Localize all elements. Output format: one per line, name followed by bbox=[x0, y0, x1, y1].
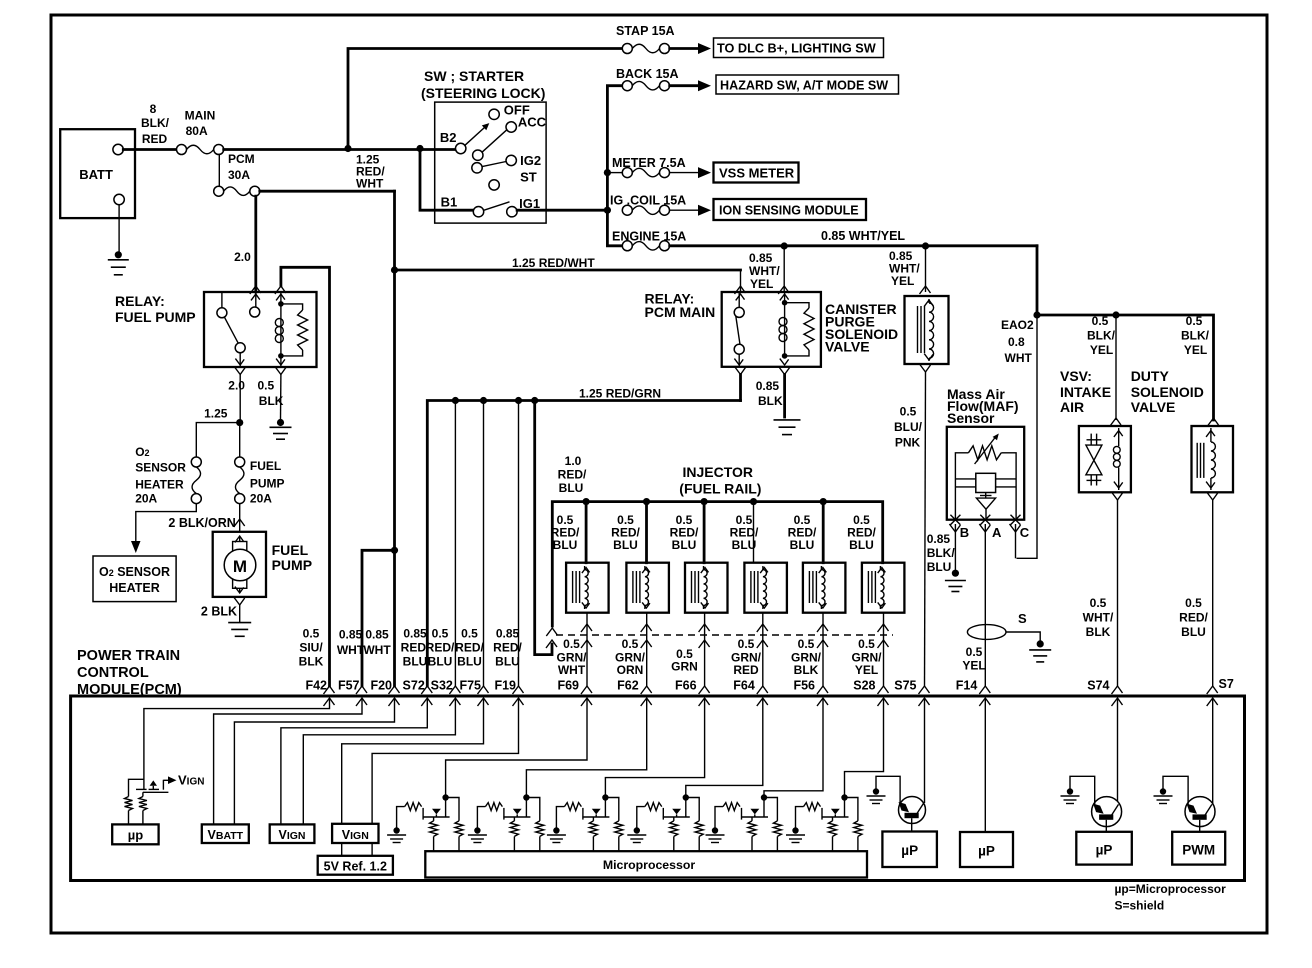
svg-text:YEL: YEL bbox=[891, 274, 914, 288]
svg-text:BLK/: BLK/ bbox=[1087, 329, 1116, 343]
label FUEL PUMP (motor) bbox=[272, 542, 312, 573]
svg-text:RED/: RED/ bbox=[1179, 611, 1208, 625]
svg-text:1.25 RED/WHT: 1.25 RED/WHT bbox=[512, 256, 595, 270]
svg-text:ENGINE 15A: ENGINE 15A bbox=[612, 230, 686, 244]
wire branch to F57 bbox=[362, 550, 395, 686]
svg-text:FUEL: FUEL bbox=[272, 542, 309, 558]
relay PCM MAIN switch bbox=[734, 292, 744, 367]
svg-text:HEATER: HEATER bbox=[135, 477, 184, 491]
ground shield ground bbox=[1029, 640, 1051, 662]
label MAIN 80A bbox=[185, 109, 216, 139]
relay PCM MAIN connector chevrons bbox=[734, 294, 788, 365]
ground battery ground bbox=[108, 251, 129, 275]
svg-text:30A: 30A bbox=[228, 168, 250, 182]
wire F42 to FET bbox=[144, 698, 330, 789]
injector 4 box bbox=[744, 563, 787, 613]
svg-text:BLU: BLU bbox=[553, 538, 578, 552]
base wire transistor Q3 (S7 driver) bbox=[1163, 776, 1188, 805]
svg-text:YEL: YEL bbox=[1184, 343, 1207, 357]
svg-text:8: 8 bbox=[150, 102, 157, 116]
ground driver 3 gate ground bbox=[547, 827, 566, 842]
svg-text:0.5: 0.5 bbox=[858, 637, 875, 651]
base wire transistor Q1 (S75 driver) bbox=[876, 776, 900, 803]
svg-text:VALVE: VALVE bbox=[1131, 399, 1176, 415]
svg-text:µP: µP bbox=[1096, 843, 1113, 858]
svg-text:0.5: 0.5 bbox=[966, 645, 983, 659]
svg-text:1.0: 1.0 bbox=[565, 454, 582, 468]
svg-text:B: B bbox=[960, 525, 969, 540]
svg-text:0.85 WHT/YEL: 0.85 WHT/YEL bbox=[821, 229, 905, 243]
label 0.85 BLK/BLU bbox=[927, 532, 956, 574]
wire fuse to fuel pump motor bbox=[234, 504, 245, 532]
svg-text:S32: S32 bbox=[431, 679, 453, 693]
svg-text:POWER TRAIN: POWER TRAIN bbox=[77, 648, 180, 664]
svg-text:20A: 20A bbox=[250, 491, 272, 505]
injector 3 box bbox=[685, 563, 728, 613]
source resistor driver 5 bbox=[748, 817, 756, 851]
wire 1.25 RED/GRN bbox=[427, 397, 740, 686]
svg-text:IG .COIL 15A: IG .COIL 15A bbox=[610, 194, 686, 208]
svg-text:O2 SENSOR: O2 SENSOR bbox=[99, 565, 170, 579]
svg-text:A: A bbox=[992, 525, 1002, 540]
svg-text:AIR: AIR bbox=[1060, 399, 1084, 415]
fuse bus vertical bbox=[604, 86, 622, 246]
box VSS METER bbox=[714, 163, 799, 183]
svg-text:0.5: 0.5 bbox=[798, 637, 815, 651]
svg-text:PUMP: PUMP bbox=[272, 557, 312, 573]
pull resistor driver 4 bbox=[686, 798, 703, 852]
arrow BACK output bbox=[670, 80, 711, 91]
fuse METER 7.5A bbox=[622, 168, 669, 178]
svg-text:0.85: 0.85 bbox=[927, 532, 951, 546]
injector 5 output wire bbox=[817, 613, 828, 686]
svg-text:2.0: 2.0 bbox=[234, 250, 251, 264]
injector driver FET 6 bbox=[822, 794, 849, 819]
FET pass transistor (VIGN switch) bbox=[129, 776, 177, 796]
svg-text:BATT: BATT bbox=[79, 167, 113, 182]
label EAO2 0.8 WHT bbox=[1001, 318, 1034, 365]
wire S32 to VIGN1 bbox=[303, 698, 455, 824]
svg-text:0.5: 0.5 bbox=[738, 637, 755, 651]
label 0.85 WHT/YEL (canister) bbox=[889, 249, 920, 288]
label POWER TRAIN CONTROL MODULE(PCM) bbox=[77, 648, 182, 698]
label O2 SENSOR HEATER 20A bbox=[135, 445, 186, 506]
switch blade mid2 to IG2 bbox=[482, 162, 506, 167]
injector 2 coil bbox=[633, 566, 650, 609]
wire pin to transistor Q2 (S74 driver) bbox=[1117, 698, 1119, 805]
svg-text:RED/: RED/ bbox=[455, 641, 484, 655]
switch contact ACC bbox=[506, 122, 516, 132]
ground driver 1 gate ground bbox=[387, 827, 406, 842]
wire BATT positive to MAIN fuse bbox=[123, 148, 176, 151]
wire IG1 to fuse bus bbox=[517, 209, 607, 212]
label 0.5 RED/BLU injector 5 bbox=[788, 513, 817, 552]
wire pin to transistor Q3 (S7 driver) bbox=[1212, 698, 1214, 805]
box TO DLC B+, LIGHTING SW bbox=[714, 38, 884, 58]
resistor R to uP (left) bbox=[125, 797, 133, 825]
wire MAIN fuse to B2 with junctions bbox=[224, 145, 456, 152]
label 0.5 GRN (injector return) bbox=[671, 647, 698, 674]
VSV solenoid coil bbox=[1113, 428, 1122, 490]
svg-text:0.5: 0.5 bbox=[1090, 596, 1107, 610]
svg-text:BLU: BLU bbox=[672, 538, 697, 552]
relay FUEL PUMP connector chevrons bbox=[235, 294, 285, 365]
svg-text:VALVE: VALVE bbox=[825, 339, 870, 355]
relay PCM MAIN box bbox=[722, 292, 821, 367]
svg-text:5V Ref. 1.2: 5V Ref. 1.2 bbox=[324, 859, 387, 873]
arrow IG.COIL output bbox=[670, 205, 711, 216]
wire F57 to VBATT bbox=[214, 698, 362, 824]
gate resistor driver 5 bbox=[715, 803, 740, 828]
switch labels bbox=[440, 103, 547, 212]
svg-text:ACC: ACC bbox=[518, 115, 547, 130]
svg-text:0.85: 0.85 bbox=[403, 627, 427, 641]
label 0.85 WHT (F20) bbox=[363, 628, 391, 658]
transistor Q2 (S74 driver) bbox=[1092, 797, 1122, 832]
svg-text:CONTROL: CONTROL bbox=[77, 665, 149, 681]
svg-text:YEL: YEL bbox=[962, 659, 985, 673]
svg-text:F14: F14 bbox=[956, 679, 978, 693]
wire PCM fuse output right bbox=[260, 190, 395, 193]
box uP 3 bbox=[1076, 832, 1132, 865]
injector 3 feed wire bbox=[703, 502, 706, 563]
svg-text:0.8: 0.8 bbox=[1008, 335, 1025, 349]
wire bus to METER fuse bbox=[607, 172, 622, 174]
svg-text:GRN: GRN bbox=[671, 660, 698, 674]
label 0.5 GRN/ORN (injector return) bbox=[615, 637, 646, 677]
label 0.5 SIU/BLK (F42) bbox=[299, 627, 324, 669]
wire down to solenoid feeds bbox=[1033, 246, 1213, 420]
svg-text:S: S bbox=[1018, 611, 1027, 626]
svg-text:IG1: IG1 bbox=[519, 196, 540, 211]
svg-text:S75: S75 bbox=[894, 679, 916, 693]
wire MAF pin A to F14 bbox=[984, 524, 986, 686]
svg-text:20A: 20A bbox=[135, 491, 157, 505]
wire to PCM MAIN relay switch bbox=[735, 270, 746, 294]
svg-text:Sensor: Sensor bbox=[947, 410, 995, 426]
label RELAY: PCM MAIN bbox=[645, 291, 716, 320]
svg-text:80A: 80A bbox=[186, 124, 208, 138]
source resistor driver 6 bbox=[829, 817, 837, 851]
pull resistor driver 2 bbox=[526, 798, 543, 852]
svg-text:YEL: YEL bbox=[855, 663, 878, 677]
fuel pump motor bbox=[224, 536, 256, 593]
transistor Q1 (S75 driver) bbox=[899, 797, 926, 832]
injector driver FET 1 bbox=[423, 794, 450, 819]
source resistor driver 1 bbox=[430, 817, 438, 851]
label 0.5 RED/BLU injector 3 bbox=[670, 513, 699, 552]
ground fuel pump motor ground bbox=[228, 623, 251, 637]
box uP 2 bbox=[960, 832, 1013, 867]
source resistor driver 4 bbox=[670, 817, 678, 851]
svg-text:F19: F19 bbox=[494, 679, 516, 693]
fuse IG .COIL 15A bbox=[622, 205, 669, 215]
injector 6 box bbox=[862, 563, 905, 613]
wire main riser to F20/F57 bbox=[391, 191, 398, 686]
relay FUEL PUMP coil and resistor bbox=[275, 292, 307, 367]
svg-text:BLU/: BLU/ bbox=[894, 420, 923, 434]
wire B1 feed bbox=[420, 149, 473, 211]
svg-text:BLK: BLK bbox=[794, 663, 819, 677]
svg-text:WHT: WHT bbox=[337, 643, 365, 657]
arrow METER output bbox=[670, 167, 711, 178]
svg-text:WHT: WHT bbox=[363, 643, 391, 657]
VSV intake air valve box bbox=[1079, 426, 1131, 492]
pull resistor driver 1 bbox=[446, 798, 463, 852]
svg-text:BLU: BLU bbox=[790, 538, 815, 552]
wire pin to injector driver 4 bbox=[686, 698, 763, 817]
svg-text:ION SENSING MODULE: ION SENSING MODULE bbox=[719, 204, 859, 218]
svg-text:2.0: 2.0 bbox=[228, 379, 245, 393]
svg-text:RED/: RED/ bbox=[493, 641, 522, 655]
svg-text:F57: F57 bbox=[338, 679, 360, 693]
svg-text:SENSOR: SENSOR bbox=[135, 460, 186, 474]
fuse MAIN 80A bbox=[177, 145, 224, 155]
label 1.0 RED/BLU bbox=[558, 454, 587, 495]
injector 2 feed wire bbox=[645, 502, 648, 563]
wire to PCM MAIN relay coil bbox=[778, 246, 789, 294]
PCM power train control module box bbox=[71, 696, 1245, 881]
svg-text:TO DLC B+, LIGHTING SW: TO DLC B+, LIGHTING SW bbox=[717, 42, 876, 56]
wire PCM MAIN relay coil output 0.85 BLK bbox=[779, 367, 790, 418]
svg-text:METER 7.5A: METER 7.5A bbox=[612, 156, 686, 170]
PCM pin labels bbox=[305, 677, 1233, 693]
wire pin to injector driver 5 bbox=[764, 698, 823, 817]
duty solenoid valve box bbox=[1192, 426, 1234, 492]
switch contact IG1 bbox=[507, 207, 517, 217]
svg-text:WHT/: WHT/ bbox=[749, 264, 780, 278]
label PCM 30A bbox=[228, 152, 255, 182]
source resistor driver 2 bbox=[510, 817, 518, 851]
svg-text:MODULE(PCM): MODULE(PCM) bbox=[77, 682, 182, 698]
svg-text:BLU: BLU bbox=[403, 655, 428, 669]
wire fuel pump relay coil feed to F42 bbox=[275, 267, 330, 686]
injector 5 feed wire bbox=[822, 502, 825, 563]
ground base ground transistor Q2 (S74 driver) bbox=[1061, 788, 1080, 803]
svg-text:MAIN: MAIN bbox=[185, 109, 216, 123]
svg-text:STAP 15A: STAP 15A bbox=[616, 24, 675, 38]
ground driver 4 gate ground bbox=[627, 827, 646, 842]
wire injector rail 1.0 RED/BLU bbox=[546, 498, 882, 636]
label 0.5 RED/BLU injector 4 bbox=[730, 513, 759, 552]
wire VSV output to S74 bbox=[1112, 492, 1123, 686]
injector 6 output wire bbox=[878, 613, 889, 686]
svg-text:µP: µP bbox=[901, 843, 918, 858]
wire pin to injector driver 3 bbox=[605, 698, 704, 817]
ground PCM main relay coil ground bbox=[774, 420, 801, 435]
svg-text:0.5: 0.5 bbox=[622, 637, 639, 651]
wire 1.25 RED/WHT horizontal bbox=[395, 269, 741, 272]
MAF pin marks B A C bbox=[949, 515, 960, 532]
injector 6 coil bbox=[868, 566, 885, 609]
wire F20 to VBATT bbox=[234, 698, 394, 824]
injector 3 coil bbox=[692, 566, 709, 609]
svg-text:BLU: BLU bbox=[559, 481, 584, 495]
ground driver 2 gate ground bbox=[468, 827, 487, 842]
VSV valve bowtie symbol bbox=[1086, 434, 1102, 486]
wire drop to F19 bbox=[518, 401, 520, 687]
relay PCM MAIN coil and resistor bbox=[779, 292, 814, 359]
gate resistor driver 2 bbox=[477, 803, 502, 828]
injector 3 output wire bbox=[699, 613, 710, 686]
MAF inner element bbox=[955, 473, 1016, 519]
svg-text:Microprocessor: Microprocessor bbox=[603, 858, 695, 872]
wire 2.0 PCM fuse to fuel pump relay bbox=[250, 196, 261, 294]
svg-text:BACK 15A: BACK 15A bbox=[616, 67, 679, 81]
box uP 1 bbox=[882, 832, 937, 868]
box Microprocessor bbox=[425, 851, 867, 877]
injector 5 box bbox=[803, 563, 846, 613]
svg-text:S72: S72 bbox=[403, 679, 425, 693]
svg-text:HAZARD SW, A/T MODE SW: HAZARD SW, A/T MODE SW bbox=[720, 79, 888, 93]
svg-text:WHT: WHT bbox=[1005, 351, 1033, 365]
transistor Q3 (S7 driver) bbox=[1185, 797, 1215, 832]
svg-text:BLK: BLK bbox=[259, 394, 284, 408]
ground driver 5 gate ground bbox=[706, 827, 725, 842]
svg-text:BLU: BLU bbox=[457, 655, 482, 669]
svg-text:1.25 RED/GRN: 1.25 RED/GRN bbox=[579, 387, 661, 401]
label 0.85 WHT/YEL (relay coil) bbox=[749, 251, 780, 291]
svg-text:0.85: 0.85 bbox=[749, 251, 773, 265]
injector 4 feed wire bbox=[753, 502, 755, 563]
wire F19 to VIGN2 bbox=[372, 698, 518, 824]
wire pin to injector driver 6 bbox=[845, 698, 884, 817]
ground base ground transistor Q1 (S75 driver) bbox=[867, 788, 886, 803]
label VSV: INTAKE AIR bbox=[1060, 368, 1111, 415]
canister solenoid coil bbox=[918, 299, 934, 361]
label INJECTOR (FUEL RAIL) bbox=[679, 464, 761, 497]
svg-text:FUEL PUMP: FUEL PUMP bbox=[115, 309, 196, 325]
wire S72 to VIGN1 bbox=[281, 698, 427, 824]
fuse STAP 15A bbox=[622, 44, 669, 54]
ground base ground transistor Q3 (S7 driver) bbox=[1154, 788, 1173, 803]
label 0.5 RED/BLU (S32) bbox=[426, 627, 455, 669]
label RELAY: FUEL PUMP bbox=[115, 293, 196, 325]
box PWM bbox=[1172, 832, 1225, 865]
svg-text:RED: RED bbox=[142, 132, 168, 146]
wire 1.25 branch to O2 heater fuse bbox=[196, 423, 239, 457]
label 0.85 WHT (F57) bbox=[337, 628, 365, 658]
junction 2.0 / 1.25 bbox=[236, 419, 243, 426]
svg-text:S74: S74 bbox=[1087, 679, 1109, 693]
svg-text:DUTY: DUTY bbox=[1131, 368, 1170, 384]
svg-text:C: C bbox=[1020, 525, 1030, 540]
svg-text:2 BLK/ORN: 2 BLK/ORN bbox=[168, 516, 235, 530]
switch mid contact 1 bbox=[473, 150, 483, 160]
chevron duty feed bbox=[1208, 418, 1219, 426]
wire motor to ground 2 BLK bbox=[234, 597, 245, 623]
svg-text:B2: B2 bbox=[440, 130, 457, 145]
wire pin to injector driver 2 bbox=[526, 698, 646, 817]
svg-text:VBATT: VBATT bbox=[208, 828, 244, 842]
svg-text:BLU: BLU bbox=[613, 538, 638, 552]
label 0.5 GRN/BLK (injector return) bbox=[791, 637, 822, 677]
wire canister output to S75 bbox=[920, 364, 931, 686]
fuse PCM 30A bbox=[214, 186, 260, 196]
injector driver FET 4 bbox=[663, 794, 690, 819]
label 0.5 BLK bbox=[258, 379, 284, 409]
svg-text:F20: F20 bbox=[370, 679, 392, 693]
svg-text:INTAKE: INTAKE bbox=[1060, 384, 1111, 400]
label 0.5 RED/BLU (F75) bbox=[455, 627, 484, 669]
wire F14 to uP box bbox=[984, 698, 986, 832]
gate resistor driver 1 bbox=[397, 803, 422, 828]
svg-text:F75: F75 bbox=[459, 679, 481, 693]
label 0.85 RED/BLU (F19) bbox=[493, 627, 522, 669]
svg-text:ST: ST bbox=[520, 170, 537, 185]
label 0.5 RED/BLU injector 6 bbox=[847, 513, 876, 552]
svg-text:WHT: WHT bbox=[558, 663, 586, 677]
label FUEL PUMP 20A bbox=[250, 459, 285, 506]
svg-text:2 BLK: 2 BLK bbox=[201, 605, 237, 619]
svg-text:BLU: BLU bbox=[927, 560, 952, 574]
box VIGN 1 bbox=[270, 824, 315, 843]
duty solenoid coil with core bbox=[1197, 428, 1215, 490]
injector 4 output wire bbox=[757, 613, 768, 686]
svg-text:ORN: ORN bbox=[617, 663, 644, 677]
wire shield to ground bbox=[1006, 632, 1040, 641]
svg-text:S7: S7 bbox=[1219, 677, 1234, 691]
svg-text:PNK: PNK bbox=[895, 436, 921, 450]
label Mass Air Flow(MAF) Sensor bbox=[947, 386, 1019, 426]
svg-text:BLK/: BLK/ bbox=[141, 116, 170, 130]
svg-text:0.85: 0.85 bbox=[496, 627, 520, 641]
injector driver FET 2 bbox=[503, 794, 530, 819]
switch blade B1 to IG1 bbox=[484, 202, 510, 211]
svg-text:0.5: 0.5 bbox=[900, 404, 917, 418]
wire fuel pump relay switch output 2.0 bbox=[234, 367, 245, 423]
svg-text:WHT/: WHT/ bbox=[1083, 611, 1114, 625]
label 8 BLK/RED bbox=[141, 102, 170, 146]
label 0.5 WHT/BLK bbox=[1083, 596, 1114, 639]
pull resistor driver 5 bbox=[764, 798, 781, 852]
svg-text:PCM: PCM bbox=[228, 152, 255, 166]
label DUTY SOLENOID VALVE bbox=[1131, 368, 1204, 415]
resistor R to uP (right) bbox=[139, 792, 147, 824]
wire BATT negative to ground bbox=[118, 205, 120, 252]
svg-text:VIGN: VIGN bbox=[278, 828, 305, 842]
svg-text:SW ; STARTER: SW ; STARTER bbox=[424, 68, 524, 84]
svg-text:VSS METER: VSS METER bbox=[719, 166, 795, 181]
MAF sensor box bbox=[947, 427, 1024, 520]
svg-text:0.5: 0.5 bbox=[563, 637, 580, 651]
fuel pump motor box bbox=[213, 532, 266, 597]
switch contact ST bbox=[489, 180, 499, 190]
source resistor driver 3 bbox=[589, 817, 597, 851]
svg-text:F64: F64 bbox=[733, 679, 755, 693]
svg-text:YEL: YEL bbox=[1090, 343, 1113, 357]
injector 1 output wire bbox=[581, 613, 592, 686]
svg-text:BLK: BLK bbox=[758, 394, 783, 408]
wire riser to STAP fuse feed bbox=[348, 49, 622, 149]
pull resistor driver 3 bbox=[605, 798, 622, 852]
gate resistor driver 3 bbox=[556, 803, 581, 828]
wire pin to injector driver 1 bbox=[446, 698, 587, 817]
box HAZARD SW, A/T MODE SW bbox=[716, 75, 899, 94]
svg-text:(FUEL RAIL): (FUEL RAIL) bbox=[679, 481, 761, 497]
fuse FUEL PUMP 20A bbox=[235, 457, 245, 504]
fuse ENGINE 15A bbox=[622, 241, 669, 251]
svg-text:RED/: RED/ bbox=[426, 641, 455, 655]
wire EAO2 0.8 WHT to MAF pin C bbox=[1017, 315, 1038, 558]
wire drop to S32 bbox=[454, 401, 456, 687]
svg-text:PWM: PWM bbox=[1182, 843, 1215, 858]
svg-text:0.5: 0.5 bbox=[1185, 596, 1202, 610]
injector harness connector dashed line bbox=[556, 634, 893, 636]
svg-text:F56: F56 bbox=[793, 679, 815, 693]
svg-text:BLK/: BLK/ bbox=[1181, 329, 1210, 343]
svg-text:IG2: IG2 bbox=[520, 153, 541, 168]
